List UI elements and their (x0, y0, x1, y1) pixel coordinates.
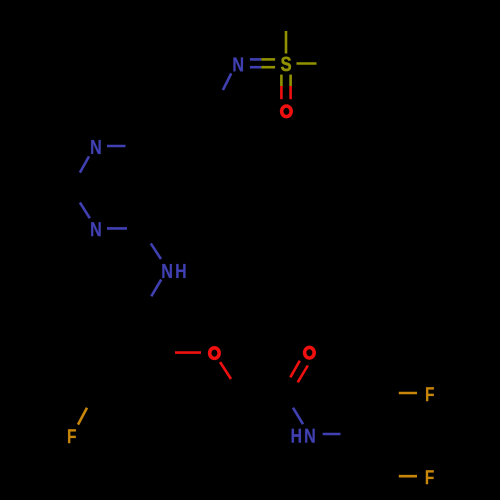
atom F bottom right (426, 470, 434, 484)
atom N3 pyrimidine (91, 222, 101, 236)
bond N=S lower line, S half (261, 66, 275, 69)
atom F top right (426, 387, 434, 401)
atom H of amide HN (292, 429, 301, 443)
bond S - CH3 up stub (285, 31, 288, 54)
bond N1 - C8a stub (107, 145, 126, 148)
bond sulfoximine N - ring C stub (223, 73, 231, 90)
atom N of amide HN (305, 429, 315, 443)
bond O ether - CH2 stub (220, 362, 231, 379)
bond CH2F bottom - F stub (399, 475, 417, 478)
bond aryl C2 - O ether stub (175, 351, 201, 354)
atom O sulfoximine (282, 106, 292, 117)
bond S - C right stub (297, 62, 317, 65)
bond amide N - CH stub (323, 433, 341, 436)
atom O carbonyl (305, 347, 315, 358)
bond NH - aryl C1 stub (151, 280, 161, 297)
bond C=O right line, O half (298, 366, 308, 383)
bond aryl C5 - F stub (78, 408, 87, 425)
atom F on aryl ring (68, 429, 76, 443)
atom O ether (210, 348, 220, 359)
atom N1 pyrimidine (91, 140, 101, 154)
bond N1 - C2 stub (80, 156, 89, 172)
bond C2 - N3 stub (80, 203, 90, 219)
bond N3 - C4 stub (107, 227, 127, 230)
atom H of ring NH (176, 264, 185, 278)
atom N of ring NH (162, 264, 172, 278)
bond N=S lower line, N half (250, 66, 261, 69)
bond S=O left line, O half (280, 86, 283, 99)
bond C=O left line, O half (290, 361, 300, 378)
bond N=S upper line, N half (250, 58, 261, 61)
bond C4 - NH stub (151, 243, 161, 259)
atom S sulfoximine (281, 57, 291, 71)
bond S=O right line, S half (289, 75, 292, 86)
atom N sulfoximine (233, 57, 243, 71)
bond N=S upper line, S half (261, 58, 275, 61)
bond amide N - carbonyl C stub (293, 408, 303, 425)
bond S=O right line, O half (289, 86, 292, 99)
bond S=O left line, S half (280, 75, 283, 86)
bond CH2F top - F stub (399, 392, 417, 395)
